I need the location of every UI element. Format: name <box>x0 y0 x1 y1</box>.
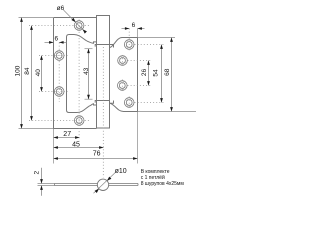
centerline barrel axis <box>102 47 104 178</box>
svg-text:ø6: ø6 <box>57 5 65 12</box>
svg-text:40: 40 <box>35 69 42 77</box>
hole 8 right leaf <box>124 98 134 108</box>
dimension 26 <box>148 61 150 86</box>
leader diameter 10 <box>94 173 116 194</box>
svg-text:26: 26 <box>141 69 148 77</box>
svg-text:43: 43 <box>83 67 90 75</box>
knuckle barrel <box>97 16 110 129</box>
side view left leaf bar <box>55 184 98 186</box>
dimension 76 <box>54 158 138 160</box>
barrel joint line bottom <box>95 101 113 104</box>
hole 4 bottom-left leaf <box>74 116 84 126</box>
centerline holes 1-4 column <box>78 20 80 141</box>
svg-text:2: 2 <box>34 171 41 175</box>
inner folded leaf contour <box>67 35 97 113</box>
extension thickness-2 lines <box>38 184 55 186</box>
svg-text:100: 100 <box>15 65 22 76</box>
extension 100 bottom <box>19 128 54 130</box>
side view barrel circle <box>97 179 108 190</box>
dimension 6 left <box>45 41 67 43</box>
centerline hole row 1 <box>29 25 90 27</box>
hole 3 left leaf <box>54 87 64 97</box>
svg-text:76: 76 <box>93 151 101 158</box>
hole 5 right leaf <box>124 40 134 50</box>
svg-text:27: 27 <box>63 131 71 138</box>
svg-text:8 шурупов 4х25мм: 8 шурупов 4х25мм <box>141 181 185 187</box>
dimension 84 <box>31 26 33 121</box>
dimension 6 right <box>122 28 145 30</box>
barrel joint line top <box>95 45 113 48</box>
centerline hole 5 column <box>128 29 130 51</box>
leader diameter 6 <box>64 10 85 32</box>
side view right leaf bar <box>109 184 138 186</box>
hole 7 right leaf <box>118 81 128 91</box>
extension left edge downward <box>53 129 55 164</box>
left leaf outline <box>54 18 97 129</box>
svg-text:6: 6 <box>54 36 58 43</box>
hole 6 right leaf <box>118 56 128 66</box>
dimension 68 <box>171 38 173 112</box>
centerline hole row 5 <box>135 44 165 46</box>
dimension 100 <box>21 18 23 129</box>
dimension 54 <box>161 45 163 103</box>
centerline hole row 4 <box>29 120 90 122</box>
hole 2 left leaf <box>54 51 64 61</box>
svg-text:45: 45 <box>72 141 80 148</box>
svg-text:6: 6 <box>132 22 136 29</box>
centerline hole 6 column <box>122 55 124 67</box>
dimension 43 <box>88 49 90 99</box>
right leaf outline <box>110 38 138 112</box>
svg-text:54: 54 <box>153 69 160 77</box>
dimension 27 <box>54 137 80 139</box>
centerline hole row 6 <box>128 60 152 62</box>
centerline hole row 2 <box>39 55 68 57</box>
svg-text:с 1 петлёй: с 1 петлёй <box>141 174 165 181</box>
svg-text:ø10: ø10 <box>115 168 127 175</box>
dimension 45 <box>54 147 104 149</box>
extension right leaf top edge <box>138 37 176 39</box>
centerline holes 2-3 column <box>58 43 60 103</box>
centerline hole 8 column <box>128 97 130 109</box>
centerline hole 7 column <box>121 80 123 92</box>
centerline hole row 7 <box>128 85 152 87</box>
extension 43 top <box>85 48 93 50</box>
extension 100 top <box>19 17 54 19</box>
centerline hole row 3 <box>39 91 68 93</box>
svg-text:68: 68 <box>164 68 171 76</box>
svg-text:84: 84 <box>24 67 31 75</box>
extension right leaf edge downward <box>137 112 139 164</box>
dimension 2 <box>41 168 43 196</box>
extension 43 bottom <box>85 98 93 100</box>
dimension 40 <box>41 56 43 92</box>
extension right leaf bottom edge <box>138 111 197 113</box>
hole 1 top-left leaf <box>74 21 84 31</box>
centerline hole row 8 <box>135 102 165 104</box>
